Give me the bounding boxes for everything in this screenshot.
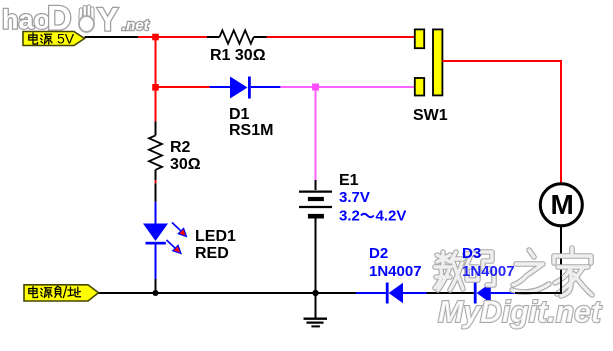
- svg-text:M: M: [551, 189, 574, 220]
- node C pink junction: [312, 84, 319, 91]
- svg-text:SW1: SW1: [413, 107, 448, 124]
- glyph 负: [55, 286, 62, 297]
- wire black LED to ground rail: [155, 279, 157, 292]
- node E junction battery/ground rail: [312, 290, 318, 296]
- svg-text:RED: RED: [195, 245, 229, 262]
- power flag 电源 5V: [23, 31, 85, 47]
- svg-text:3.2: 3.2: [339, 208, 360, 225]
- svg-text:Y: Y: [97, 2, 118, 38]
- resistor R2: [149, 121, 162, 180]
- battery E1: [299, 180, 332, 292]
- svg-text:30Ω: 30Ω: [170, 156, 201, 173]
- node A junction at 5V rail: [152, 34, 159, 41]
- svg-text:D1: D1: [229, 106, 250, 123]
- svg-text:4.2V: 4.2V: [376, 208, 407, 225]
- svg-text:5V: 5V: [57, 31, 75, 47]
- ground flag 电源负/地: [24, 285, 99, 301]
- wire ground rail black from label: [98, 292, 356, 294]
- glyph 码: [465, 252, 494, 285]
- svg-text:3.7V: 3.7V: [339, 189, 370, 206]
- LED1 emission arrow 1: [172, 223, 181, 231]
- wire blue to D2: [356, 292, 386, 294]
- svg-text:hao: hao: [2, 5, 50, 35]
- svg-text:MyDigit.net: MyDigit.net: [438, 294, 603, 329]
- resistor R1: [207, 30, 267, 43]
- svg-text:RS1M: RS1M: [229, 122, 273, 139]
- wire red D1 branch: [156, 86, 210, 88]
- wire red vertical from node A down to R2: [155, 36, 157, 121]
- wire 5V rail red segment to R1: [138, 36, 207, 38]
- wire black below R2: [155, 183, 157, 202]
- wire 5V rail black segment: [85, 36, 139, 38]
- glyph 源: [41, 34, 52, 44]
- wire pink vertical to battery: [315, 87, 317, 180]
- wire black motor-to-rail corner overdrawn: [515, 276, 561, 293]
- watermark logo haoDY.net: [2, 0, 150, 38]
- node B junction at D1 branch: [152, 84, 159, 91]
- wire red from R1 to SW1: [267, 36, 415, 38]
- glyph 地: [68, 287, 81, 297]
- glyph 家: [554, 248, 592, 296]
- wire red from SW1 to motor: [442, 61, 561, 183]
- glyph 数: [435, 252, 463, 290]
- svg-text:R2: R2: [170, 139, 191, 156]
- switch SW1: [415, 29, 443, 95]
- svg-text:1N4007: 1N4007: [462, 263, 515, 280]
- svg-text:1N4007: 1N4007: [369, 263, 422, 280]
- motor M1: [540, 184, 582, 226]
- svg-text:.net: .net: [122, 17, 150, 34]
- glyph 之: [512, 250, 549, 292]
- glyph 电: [29, 287, 38, 298]
- diode D1 RS1M: [210, 77, 281, 99]
- ground symbol: [304, 294, 328, 326]
- LED LED1: [143, 202, 187, 279]
- diode D2 1N4007: [386, 283, 427, 304]
- svg-text:R1 30Ω: R1 30Ω: [210, 47, 266, 64]
- wire red tick below R2: [155, 180, 157, 183]
- slash /: [64, 287, 67, 298]
- wire pink from D1 to SW1: [280, 86, 414, 88]
- watermark 数码之家 and MyDigit.net: [435, 248, 603, 329]
- node D junction LED/ground rail: [153, 290, 159, 296]
- glyph 电: [29, 33, 38, 44]
- svg-text:D2: D2: [369, 245, 388, 262]
- label 3.2~4.2V: [339, 208, 406, 225]
- glyph 源: [41, 288, 52, 298]
- diode D3 1N4007: [474, 283, 515, 304]
- wire black between D2 and D3: [427, 292, 474, 294]
- svg-text:LED1: LED1: [195, 228, 236, 245]
- svg-text:D3: D3: [462, 245, 481, 262]
- wire black motor to ground rail corner: [515, 227, 561, 294]
- svg-text:E1: E1: [339, 172, 359, 189]
- LED1 emission arrow 2: [167, 240, 176, 248]
